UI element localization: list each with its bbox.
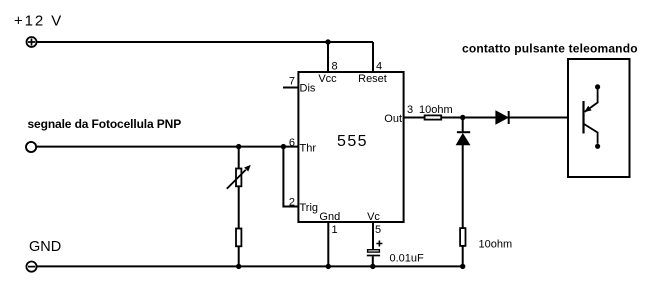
svg-text:8: 8 — [332, 61, 338, 73]
svg-text:1: 1 — [332, 224, 338, 236]
svg-text:7: 7 — [289, 76, 295, 88]
wire Out to transistor base — [404, 117, 584, 119]
wire ground rail — [37, 265, 463, 267]
svg-text:0.01uF: 0.01uF — [390, 253, 425, 265]
svg-text:Vcc: Vcc — [318, 73, 337, 85]
terminal input (open circle) — [26, 142, 36, 152]
svg-text:+12 V: +12 V — [14, 13, 63, 30]
svg-text:6: 6 — [289, 137, 295, 149]
wire pin 8 drop — [327, 42, 329, 72]
wire capacitor to ground rail — [372, 256, 374, 266]
svg-text:GND: GND — [29, 239, 61, 255]
svg-text:4: 4 — [376, 61, 382, 73]
wire pin 1 to ground rail — [327, 222, 329, 266]
junction Out node / diode branch — [460, 115, 465, 120]
capacitor C1 0.01uF — [367, 250, 380, 256]
svg-text:Dis: Dis — [300, 83, 316, 95]
svg-text:Thr: Thr — [300, 143, 317, 155]
transistor Q1 (PNP in remote box) — [584, 84, 601, 149]
svg-text:10ohm: 10ohm — [479, 239, 513, 251]
wire input to Thr — [37, 146, 298, 148]
svg-text:Out: Out — [384, 113, 402, 125]
resistor R3 body 10ohm (to ground) — [460, 228, 465, 246]
remote contact box — [568, 59, 630, 177]
potentiometer RV1 body — [236, 169, 241, 187]
svg-text:555: 555 — [337, 133, 368, 150]
junction ground rail / pin 1 — [326, 264, 331, 269]
junction at potentiometer top — [236, 144, 241, 149]
svg-text:3: 3 — [407, 104, 413, 116]
wire diode to resistor R3 — [462, 144, 464, 266]
wire pin 7 stub — [283, 87, 298, 89]
terminal GND (minus) — [26, 262, 36, 272]
potentiometer RV1 arrow — [227, 165, 251, 189]
svg-text:contatto pulsante teleomando: contatto pulsante teleomando — [462, 42, 638, 56]
terminal +12V (plus) — [27, 37, 37, 47]
wire pin 5 to capacitor — [372, 222, 374, 250]
svg-text:5: 5 — [375, 224, 381, 236]
svg-text:segnale da Fotocellula PNP: segnale da Fotocellula PNP — [28, 117, 182, 131]
svg-text:Gnd: Gnd — [319, 211, 340, 223]
wire Thr to Trig — [283, 147, 298, 207]
svg-text:Reset: Reset — [358, 73, 387, 85]
svg-text:2: 2 — [289, 197, 295, 209]
capacitor C1 polarity plus — [376, 241, 382, 247]
op-amp U1 555 body — [298, 72, 403, 222]
resistor R1 body 10ohm (series output) — [425, 115, 442, 119]
wire diode branch down — [462, 118, 464, 133]
resistor R2 body (lower left) — [236, 229, 241, 247]
svg-text:Trig: Trig — [300, 202, 319, 214]
wire +12V rail — [37, 41, 373, 43]
diode D2 (vertical, pointing up) — [457, 132, 471, 145]
diode D1 (horizontal) — [496, 111, 509, 124]
svg-text:Vc: Vc — [367, 211, 380, 223]
junction at pin8/+12V rail — [325, 39, 330, 44]
junction at Thr branch — [281, 144, 286, 149]
junction ground rail / resistor R3 — [460, 264, 465, 269]
wire pin 4 drop — [372, 42, 374, 72]
svg-text:10ohm: 10ohm — [419, 104, 453, 116]
wire potentiometer branch — [238, 147, 240, 267]
junction ground rail / capacitor — [370, 264, 375, 269]
junction ground rail / potentiometer — [236, 264, 241, 269]
